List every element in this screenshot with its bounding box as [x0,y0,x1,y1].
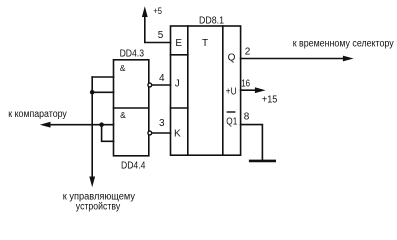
svg-text:3: 3 [159,118,165,129]
svg-text:K: K [174,129,181,140]
svg-text:J: J [175,78,180,89]
svg-text:Q1: Q1 [226,117,237,128]
svg-text:к компаратору: к компаратору [8,109,67,120]
svg-text:к временному селектору: к временному селектору [293,39,394,50]
svg-text:5: 5 [158,30,164,41]
svg-text:4: 4 [159,73,165,84]
svg-text:T: T [202,38,208,49]
svg-text:+U: +U [226,87,237,98]
svg-text:16: 16 [241,79,250,90]
svg-text:+15: +15 [262,95,278,106]
svg-text:+5: +5 [153,6,162,16]
svg-text:8: 8 [244,112,250,123]
svg-text:2: 2 [245,47,251,58]
svg-text:DD4.3: DD4.3 [120,49,145,60]
svg-text:&: & [120,63,126,73]
svg-text:&: & [120,110,126,120]
svg-text:устройству: устройству [76,202,120,213]
svg-text:DD4.4: DD4.4 [121,160,146,171]
svg-text:E: E [175,38,182,49]
svg-text:Q: Q [228,53,236,64]
svg-text:DD8.1: DD8.1 [199,16,224,27]
